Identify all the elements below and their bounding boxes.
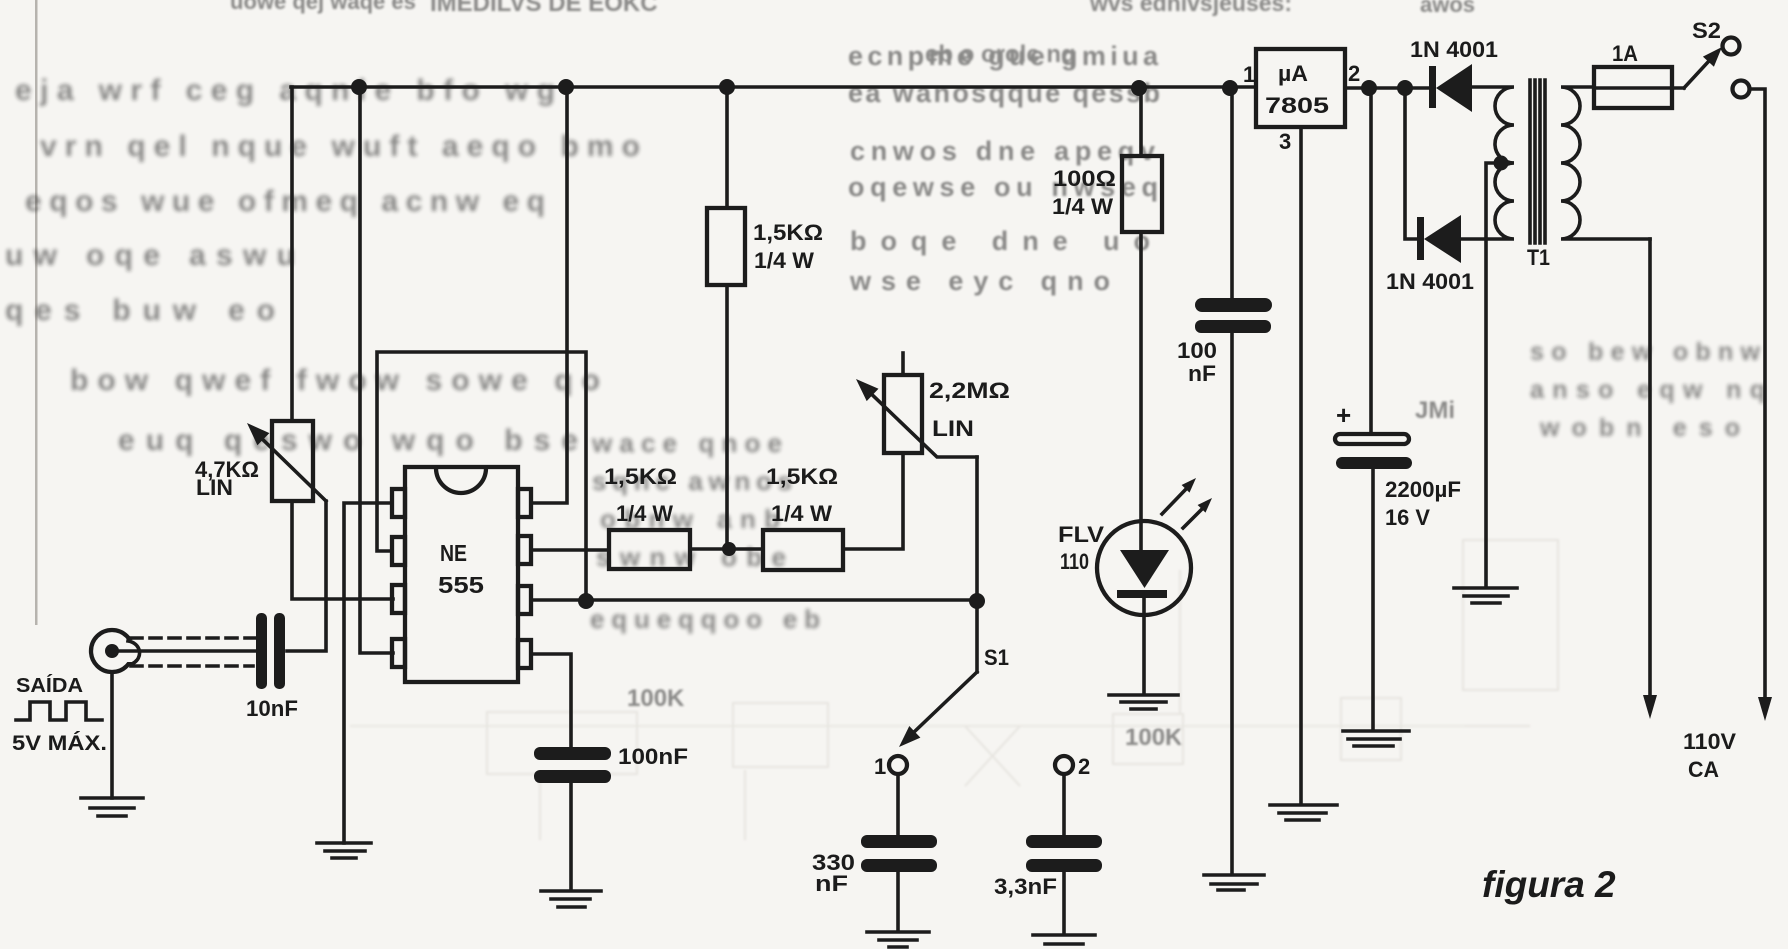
svg-text:wse eyc qno: wse eyc qno xyxy=(849,266,1110,296)
capacitor C4 100nF plates xyxy=(534,747,611,783)
svg-text:wace qnoe: wace qnoe xyxy=(591,428,782,458)
wire LED cathode to ground xyxy=(1142,598,1146,694)
ground C4 xyxy=(541,891,601,907)
pin U1 L4 xyxy=(392,639,405,667)
svg-text:2200µF: 2200µF xyxy=(1385,477,1461,502)
transformer T1 secondary winding xyxy=(1462,87,1514,239)
svg-text:equeqqoo eb: equeqqoo eb xyxy=(590,604,820,634)
wire bus to resistor R1 100R xyxy=(1139,88,1143,156)
wire 555 pin R4 to capacitor C4 100nF xyxy=(531,654,571,747)
svg-text:1/4 W: 1/4 W xyxy=(616,501,673,526)
svg-text:+: + xyxy=(1336,400,1351,430)
ground C3 xyxy=(1033,935,1095,944)
pin U1 R1 xyxy=(518,489,531,517)
svg-text:nF: nF xyxy=(1188,361,1216,386)
wire P2 wiper down to R3 row xyxy=(975,457,979,601)
node dot R2/R3/R4 junction xyxy=(722,542,736,556)
node dot secondary centre tap xyxy=(1494,156,1509,171)
wire U2 pin2 to diode D1 xyxy=(1345,86,1433,90)
resistor R1 100R body xyxy=(1122,156,1162,232)
LED D3 light arrow b xyxy=(1183,509,1202,528)
pin U1 R2 xyxy=(518,536,531,564)
wire 555 pin R3 row to S1 xyxy=(531,598,977,602)
capacitor C3 3,3nF plates xyxy=(1026,835,1102,872)
svg-text:110V: 110V xyxy=(1683,729,1736,754)
resistor R3 1,5KOhm horizontal body xyxy=(609,530,690,569)
svg-text:100Ω: 100Ω xyxy=(1053,166,1116,191)
svg-text:100: 100 xyxy=(1177,338,1217,363)
svg-text:FLV: FLV xyxy=(1058,522,1104,547)
svg-text:eqos wue ofmeq acnw eq: eqos wue ofmeq acnw eq xyxy=(25,185,545,218)
wire P1 bottom to 555 pin L3 xyxy=(292,501,393,599)
svg-text:1,5KΩ: 1,5KΩ xyxy=(766,464,838,489)
wire 555 pin R2 to resistor R3 xyxy=(531,548,609,552)
svg-text:T1: T1 xyxy=(1527,245,1550,270)
wire loop pin L2 to pin R3 over the top of 555 xyxy=(377,352,586,601)
ground pin L1 xyxy=(317,843,371,858)
wire centre tap to ground xyxy=(1486,163,1501,587)
svg-text:1A: 1A xyxy=(1612,41,1638,66)
pin U1 R3 xyxy=(518,586,531,614)
node dot bus/pin-R1 branch xyxy=(558,79,574,95)
wire primary bottom to mains drop xyxy=(1648,239,1652,697)
wire 555 pin L1 to ground drop xyxy=(344,503,392,843)
shield dash top xyxy=(131,636,255,640)
svg-text:anso eqw nq: anso eqw nq xyxy=(1530,376,1765,404)
svg-text:110: 110 xyxy=(1060,549,1089,574)
pin U1 L1 xyxy=(392,489,405,517)
wire U2 pin3 to ground xyxy=(1299,127,1303,804)
transformer T1 core xyxy=(1530,80,1545,243)
fuse F1 1A body xyxy=(1594,67,1672,108)
node dot wiper/R3 row/S1 xyxy=(969,593,985,609)
square wave symbol xyxy=(16,702,102,720)
ground C6 xyxy=(1343,731,1409,746)
contact S1-1 circle xyxy=(889,756,907,774)
diode D2 triangle xyxy=(1424,215,1461,263)
node dot bus/pin-L4 branch xyxy=(351,79,367,95)
LED D3 light arrow a xyxy=(1162,489,1186,514)
wire C4 bottom to ground xyxy=(569,783,573,890)
wire contact 1 to capacitor C2 330nF xyxy=(896,774,900,835)
LED D3 FLV110 circle xyxy=(1097,521,1191,615)
svg-text:1/4 W: 1/4 W xyxy=(771,501,832,526)
wire S2 lower contact to mains drop xyxy=(1750,89,1765,699)
potentiometer P2 2,2M body xyxy=(884,375,922,453)
svg-text:S2: S2 xyxy=(1692,18,1721,43)
potentiometer P1 4,7K body xyxy=(272,421,313,501)
svg-text:1: 1 xyxy=(1243,62,1255,87)
node dot bus/100R branch xyxy=(1131,80,1147,96)
svg-text:2: 2 xyxy=(1348,61,1360,86)
svg-text:uowe qej waqe es: uowe qej waqe es xyxy=(230,0,416,14)
svg-text:ea wanosqque qessb: ea wanosqque qessb xyxy=(848,78,1160,108)
fuse F1 wire through xyxy=(1594,86,1684,90)
potentiometer P2 2,2M top stub xyxy=(901,353,905,375)
wire bus dot down to resistor R2 top xyxy=(725,87,729,208)
svg-text:µA: µA xyxy=(1278,61,1308,86)
regulator U2 7805 body xyxy=(1256,49,1345,127)
resistor R4 1,5KOhm horizontal body xyxy=(763,530,843,570)
node dot bus/1,5K resistor R2 branch xyxy=(719,79,735,95)
svg-text:1/4 W: 1/4 W xyxy=(1052,194,1113,219)
LED D3 cathode bar xyxy=(1117,590,1167,598)
IC U1 NE555 body xyxy=(405,467,518,682)
svg-text:LIN: LIN xyxy=(196,475,233,500)
pin U1 L2 xyxy=(392,537,405,565)
capacitor C2 330nF plates xyxy=(861,835,937,872)
node dot loop meets R3 row xyxy=(578,593,594,609)
capacitor C6 2200uF bottom plate xyxy=(1336,457,1412,469)
resistor R2 1,5KOhm vertical body xyxy=(707,208,745,285)
svg-text:1/4 W: 1/4 W xyxy=(754,248,814,273)
wire left drop from bus to 4,7K pot top xyxy=(290,87,294,421)
svg-text:SAÍDA: SAÍDA xyxy=(16,674,83,697)
svg-text:100K: 100K xyxy=(1125,724,1183,751)
LED D3 triangle xyxy=(1120,550,1169,588)
potentiometer P2 wiper arrow xyxy=(862,385,977,457)
capacitor C5 100nF plates xyxy=(1195,298,1272,333)
wire resistor R4 to potentiometer P2 bottom xyxy=(843,453,903,549)
wire C5 bottom to ground xyxy=(1230,333,1234,874)
ground centre tap xyxy=(1454,588,1517,603)
arrow mains left xyxy=(1643,695,1657,719)
wire C6 bottom to ground xyxy=(1371,469,1375,730)
wire jack hot to capacitor C1 10nF xyxy=(112,649,257,653)
svg-text:euq qeswo wqo bse: euq qeswo wqo bse xyxy=(118,424,578,457)
svg-text:2: 2 xyxy=(1078,754,1090,779)
svg-text:boqe dne uo: boqe dne uo xyxy=(850,226,1150,256)
diode D1 triangle xyxy=(1436,64,1472,112)
ground U2 pin3 xyxy=(1270,805,1337,820)
node dot pin2/2200uF branch xyxy=(1361,80,1377,96)
node dot pin2/D2 branch xyxy=(1397,80,1413,96)
wire resistor R3 to resistor R4 xyxy=(690,547,763,551)
svg-text:1,5KΩ: 1,5KΩ xyxy=(753,220,823,245)
svg-text:10nF: 10nF xyxy=(246,696,298,721)
svg-text:vrn qel nque wuft aeqo bm: vrn qel nque wuft aeqo bmo xyxy=(40,130,640,163)
svg-text:16 V: 16 V xyxy=(1385,505,1430,530)
switch S2 arm arrow xyxy=(1684,62,1708,88)
svg-text:figura 2: figura 2 xyxy=(1482,864,1616,905)
pin U1 R4 xyxy=(518,640,531,668)
wire D2 branch vertical xyxy=(1405,88,1421,239)
arrow mains right xyxy=(1758,697,1772,721)
wire to capacitor C6 2200uF xyxy=(1369,88,1373,434)
svg-text:so bew obnw: so bew obnw xyxy=(1530,338,1761,366)
wire resistor R1 to LED D3 xyxy=(1139,232,1143,552)
wire bus to capacitor C5 100nF xyxy=(1230,88,1234,298)
wire P1 wiper down to 10nF cap xyxy=(287,501,326,651)
wire C2 bottom to ground xyxy=(896,872,900,931)
ground LED xyxy=(1109,695,1178,709)
svg-text:1,5KΩ: 1,5KΩ xyxy=(604,464,677,489)
potentiometer P1 wiper arrow xyxy=(253,430,326,501)
capacitor C1 10nF plates xyxy=(256,613,285,689)
svg-text:100K: 100K xyxy=(627,685,685,712)
svg-text:3,3nF: 3,3nF xyxy=(994,874,1057,899)
wire bus dot to 555 pin L4 (x=361 vertical) xyxy=(360,87,393,653)
ground C5 xyxy=(1204,875,1264,890)
switch S1 arm arrow xyxy=(913,672,977,733)
svg-text:IMEDILVS DE EOKC: IMEDILVS DE EOKC xyxy=(430,0,658,17)
svg-text:CA: CA xyxy=(1688,757,1719,782)
contact S2 upper circle xyxy=(1723,38,1740,55)
contact S1-2 circle xyxy=(1055,756,1073,774)
svg-text:nF: nF xyxy=(815,871,848,896)
wire contact 2 to capacitor C3 3,3nF xyxy=(1062,774,1066,835)
svg-text:eb o orolc nq: eb o orolc nq xyxy=(925,41,1076,68)
svg-text:7805: 7805 xyxy=(1265,93,1329,118)
wire C3 bottom to ground xyxy=(1062,872,1066,934)
svg-text:1N 4001: 1N 4001 xyxy=(1410,37,1498,62)
svg-text:3: 3 xyxy=(1279,129,1291,154)
svg-text:1N 4001: 1N 4001 xyxy=(1386,269,1474,294)
svg-text:LIN: LIN xyxy=(932,416,974,441)
wire jack sleeve to ground xyxy=(110,672,114,798)
svg-text:NE: NE xyxy=(440,540,467,566)
svg-text:5V MÁX.: 5V MÁX. xyxy=(12,732,107,755)
jack J1 side hook xyxy=(128,641,140,664)
wire top +5V bus xyxy=(291,85,1256,89)
capacitor C6 2200uF top plate xyxy=(1335,434,1409,444)
IC U1 notch xyxy=(436,468,486,493)
diode D1 1N4001 cathode bar xyxy=(1429,66,1436,108)
svg-text:2,2MΩ: 2,2MΩ xyxy=(929,378,1010,403)
ground jack xyxy=(81,798,143,816)
ground C2 xyxy=(867,932,929,947)
transformer T1 primary winding xyxy=(1561,87,1650,239)
wire bus dot to 555 pin R1 (x=568 vertical) xyxy=(531,87,567,503)
svg-text:1: 1 xyxy=(874,754,886,779)
svg-text:awos: awos xyxy=(1420,0,1475,17)
jack J1 gap cover xyxy=(127,640,140,662)
svg-text:555: 555 xyxy=(438,572,484,598)
contact S2 lower circle xyxy=(1733,81,1750,98)
shield dash bottom xyxy=(131,664,253,668)
pin U1 L3 xyxy=(392,585,405,613)
svg-text:cnwos dne apeqv: cnwos dne apeqv xyxy=(850,136,1155,166)
svg-text:S1: S1 xyxy=(984,645,1009,670)
wire resistor R2 bottom down to junction with R3/R4 chain xyxy=(725,285,729,549)
jack J1 centre dot xyxy=(105,644,119,658)
svg-text:uw oqe aswu: uw oqe aswu xyxy=(5,239,295,272)
diode D2 1N4001 cathode bar xyxy=(1417,217,1424,260)
node dot bus/100nF branch xyxy=(1222,80,1238,96)
svg-text:wvs ednivsjeuses:: wvs ednivsjeuses: xyxy=(1089,0,1292,16)
svg-text:JMi: JMi xyxy=(1415,397,1455,424)
switch S1 pole wire xyxy=(975,601,979,672)
svg-text:100nF: 100nF xyxy=(618,744,688,769)
output jack J1 circle xyxy=(91,630,133,672)
